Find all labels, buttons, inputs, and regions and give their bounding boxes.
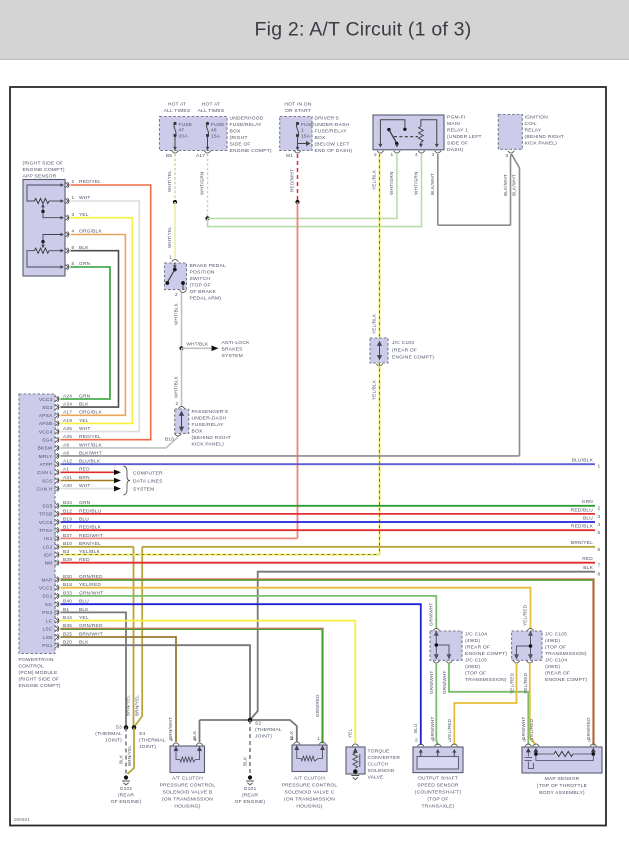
wire ORG/BLK APP pin4 to PCM A17 <box>61 235 126 416</box>
TCC valve connector <box>352 744 358 746</box>
APP sensor box <box>23 180 65 277</box>
svg-text:RED/BLK: RED/BLK <box>571 524 594 530</box>
svg-text:LSB: LSB <box>43 635 53 641</box>
C105 bottom connector left <box>513 661 519 663</box>
svg-text:(4WD): (4WD) <box>545 638 560 644</box>
C105 top connector <box>527 628 533 630</box>
svg-text:TORQUE: TORQUE <box>368 749 391 755</box>
wire GRN PCM B34 to right edge <box>61 505 596 507</box>
wire BLK/WHT relay pin3 down <box>437 154 439 225</box>
PCM pin connector at y=628.8 <box>55 626 59 632</box>
wire YEL APP pin3 to PCM A19 <box>61 218 133 424</box>
svg-text:FUSE: FUSE <box>211 122 225 128</box>
svg-text:ENGINE COMPT): ENGINE COMPT) <box>545 677 587 683</box>
passenger's under-dash fuse/relay box <box>175 409 189 433</box>
ignition coil relay name <box>525 115 565 147</box>
C104 bottom connector left <box>433 661 439 663</box>
wire RED/WHT vertical to B37 <box>297 202 299 538</box>
wire BLK S2 to valve B pin2 horizontal <box>200 719 251 721</box>
svg-text:HOT AT: HOT AT <box>168 102 187 108</box>
svg-text:KICK PANEL): KICK PANEL) <box>192 442 225 448</box>
svg-text:POSITION: POSITION <box>190 270 215 276</box>
svg-text:YEL/RED: YEL/RED <box>523 604 528 626</box>
svg-text:J/C C103: J/C C103 <box>392 340 414 346</box>
svg-text:WHT/GRN: WHT/GRN <box>414 172 419 195</box>
passenger box pin2 connector <box>178 406 184 408</box>
label HOT AT ALL TIMES (fuse 47) <box>164 102 191 115</box>
svg-text:3: 3 <box>432 152 435 158</box>
svg-text:6: 6 <box>598 547 601 553</box>
wire BRN/YEL S4 to ground <box>128 728 135 775</box>
svg-text:WHT/YEL: WHT/YEL <box>167 170 172 192</box>
underhood box name <box>230 116 272 155</box>
relay blade end <box>395 142 398 145</box>
APP sensor pin at y=217.7 <box>65 215 69 221</box>
valve B pin2 connector <box>196 743 202 745</box>
svg-text:COIL: COIL <box>525 121 537 127</box>
svg-text:46: 46 <box>211 128 217 134</box>
svg-text:BLK: BLK <box>583 565 593 571</box>
powertrain control module (PCM) box <box>19 394 55 654</box>
wire BLK/WHT long vertical <box>519 180 521 456</box>
wire BRN/YEL S4 vertical right <box>135 547 143 727</box>
svg-text:(2WD): (2WD) <box>465 664 480 670</box>
svg-text:HOUSING): HOUSING) <box>296 804 322 810</box>
valve B name <box>160 776 216 810</box>
wire YEL PCM B44 to TCC valve <box>61 621 356 743</box>
relay pin 2 connector <box>377 151 383 153</box>
svg-text:(TOP OF: (TOP OF <box>190 283 211 289</box>
TCC valve name <box>368 749 401 781</box>
wire WHT APP pin1 to PCM A25 <box>61 201 140 432</box>
brake switch blade <box>167 270 175 283</box>
svg-text:TRANSMISSION): TRANSMISSION) <box>465 677 507 683</box>
svg-text:M1: M1 <box>286 153 293 159</box>
wire RED/BLK PCM B17 to right edge <box>61 529 596 531</box>
relay top rail left <box>380 120 405 131</box>
svg-text:JOINT): JOINT) <box>255 734 272 740</box>
wire BRN/YEL S4 vertical left <box>133 547 135 728</box>
valve C internal <box>295 746 324 761</box>
svg-text:PG1: PG1 <box>42 643 52 649</box>
svg-text:UNDERHOOD: UNDERHOOD <box>230 116 264 122</box>
svg-text:UNDER-DASH: UNDER-DASH <box>315 122 350 128</box>
output sensor pin2 connector <box>418 744 424 746</box>
svg-text:GRN/WHT: GRN/WHT <box>429 603 434 626</box>
svg-text:3: 3 <box>598 514 601 520</box>
fuse 47 label <box>179 122 193 140</box>
svg-text:BRN/YEL: BRN/YEL <box>126 695 131 716</box>
svg-text:SIDE OF: SIDE OF <box>230 142 251 148</box>
label HOT IN ON OR START <box>284 102 311 115</box>
svg-text:UNDER-DASH: UNDER-DASH <box>192 416 227 422</box>
PCM pin connector at y=546.8 <box>55 544 59 550</box>
fuse 1 label <box>301 122 315 140</box>
svg-text:HOT IN ON: HOT IN ON <box>284 102 311 108</box>
APP sensor location text <box>23 161 65 180</box>
svg-text:DRIVER'S: DRIVER'S <box>315 116 340 122</box>
svg-text:(UNDER LEFT: (UNDER LEFT <box>447 134 482 140</box>
fuse 1 15A symbol <box>296 122 299 137</box>
svg-text:BOX: BOX <box>230 129 242 135</box>
wire RED/YEL APP pin2 to PCM A35 <box>61 185 151 440</box>
svg-text:47: 47 <box>179 128 185 134</box>
relay pin4 arrow <box>419 142 423 148</box>
svg-text:OUTPUT SHAFT: OUTPUT SHAFT <box>418 776 458 782</box>
PCM pin connector at y=464.2 <box>55 461 59 467</box>
connector B5 <box>172 151 178 153</box>
C105 internal <box>515 632 532 659</box>
svg-text:A9: A9 <box>63 442 69 448</box>
PCM pin connector at y=645.2 <box>55 642 59 648</box>
svg-text:RELAY: RELAY <box>525 128 542 134</box>
svg-text:SCS: SCS <box>42 478 53 484</box>
svg-text:SOLENOID: SOLENOID <box>368 768 395 774</box>
svg-text:1: 1 <box>169 255 172 261</box>
wire BLU PCM B40 to output sensor pin2 <box>61 604 421 745</box>
PCM pin connector at y=522 <box>55 519 59 525</box>
wire WHT PCM A30 data line <box>61 488 115 490</box>
junction WHT/GRN <box>205 216 209 220</box>
svg-text:G101: G101 <box>120 786 133 792</box>
wire WHT/GRN to relay pin4 <box>208 154 422 227</box>
svg-text:BLK/WHT: BLK/WHT <box>503 174 508 196</box>
wire YEL/RED C105 to output pin1 <box>454 663 516 745</box>
anti-lock brakes system text <box>222 340 251 359</box>
relay pin1 arrow <box>395 144 399 148</box>
relay coil top rail <box>421 120 437 128</box>
wire YEL/BLK PCM B3 <box>61 554 380 556</box>
svg-text:(2WD): (2WD) <box>545 664 560 670</box>
wire YEL/BLK below C103 <box>379 363 381 555</box>
svg-text:SG4: SG4 <box>42 438 52 444</box>
svg-text:ENGINE COMPT): ENGINE COMPT) <box>465 651 507 657</box>
svg-text:(ON TRANSMISSION: (ON TRANSMISSION <box>284 797 335 803</box>
svg-text:(BELOW LEFT: (BELOW LEFT <box>315 142 350 148</box>
svg-text:PG2: PG2 <box>42 610 52 616</box>
wire BLK valve B pin2 vertical <box>199 720 201 742</box>
svg-text:BOX: BOX <box>192 429 204 435</box>
wire BLK/WHT ignition diagonal <box>512 154 520 180</box>
svg-text:PRESSURE CONTROL: PRESSURE CONTROL <box>160 783 216 789</box>
PCM name <box>19 657 61 689</box>
svg-text:FUSE: FUSE <box>301 122 315 128</box>
G101 rear of engine text (S2) <box>235 786 266 805</box>
svg-text:(REAR OF: (REAR OF <box>545 671 570 677</box>
svg-text:BLU: BLU <box>583 515 593 521</box>
connector M1 <box>294 151 300 153</box>
svg-text:BRN/YEL: BRN/YEL <box>135 695 140 716</box>
svg-text:BRAKE PEDAL: BRAKE PEDAL <box>190 263 226 269</box>
APP pot1 wiper out <box>43 212 61 218</box>
svg-text:(PCM) MODULE: (PCM) MODULE <box>19 670 59 676</box>
thermal joint S4 <box>132 725 137 730</box>
svg-text:(THERMAL: (THERMAL <box>255 727 282 733</box>
fuse 46 label <box>211 122 225 140</box>
svg-text:FUSE/RELAY: FUSE/RELAY <box>315 129 348 135</box>
svg-text:(TOP OF: (TOP OF <box>427 797 448 803</box>
svg-text:SG5: SG5 <box>42 504 52 510</box>
svg-text:RED/WHT: RED/WHT <box>290 169 295 192</box>
relay switch blade <box>389 130 397 144</box>
PCM pin connector at y=595.9 <box>55 593 59 599</box>
relay pin2 arrow <box>378 131 382 148</box>
MAP node left <box>534 752 538 756</box>
svg-text:2: 2 <box>598 506 601 512</box>
svg-text:CAN L: CAN L <box>37 470 52 476</box>
svg-text:2: 2 <box>175 292 178 298</box>
svg-text:VCC3: VCC3 <box>39 397 53 403</box>
C104 internal node <box>435 643 439 647</box>
svg-text:POWERTRAIN: POWERTRAIN <box>19 657 55 663</box>
svg-text:RELAY 1: RELAY 1 <box>447 128 468 134</box>
svg-text:CONVERTER: CONVERTER <box>368 755 401 761</box>
TCC coil <box>353 753 358 768</box>
brake switch contact B <box>165 281 169 285</box>
C104 bottom connector right <box>446 661 452 663</box>
wire BLK to right edge 8 <box>250 572 595 720</box>
junction connector C105 box <box>512 631 542 660</box>
svg-text:DASH): DASH) <box>447 147 463 153</box>
svg-text:2: 2 <box>374 152 377 158</box>
data lines brace <box>124 466 131 495</box>
svg-text:CLUTCH: CLUTCH <box>368 762 389 768</box>
passenger box name <box>192 409 232 448</box>
data line arrow BRN <box>114 478 121 484</box>
svg-text:LC: LC <box>46 618 53 624</box>
svg-text:CONTROL: CONTROL <box>19 664 45 670</box>
svg-text:BLU: BLU <box>413 723 418 733</box>
PCM pin connector at y=399 <box>55 396 59 402</box>
svg-text:15A: 15A <box>301 134 311 140</box>
svg-text:3: 3 <box>506 153 509 159</box>
PGM-FI main relay 1 box <box>373 115 444 150</box>
relay fixed contact <box>403 128 406 131</box>
A/T clutch pressure control solenoid valve C box <box>292 745 327 772</box>
valve B internal <box>174 747 201 762</box>
wire YEL/BLK from relay pin2 <box>379 154 381 338</box>
svg-text:GRN/WHT: GRN/WHT <box>430 717 435 740</box>
wire BLU PCM B19 to right edge <box>61 521 596 523</box>
svg-text:BOX: BOX <box>315 135 327 141</box>
svg-text:TPSB: TPSB <box>39 512 52 518</box>
svg-text:4: 4 <box>415 152 418 158</box>
wire BLK/WHT horizontal joint <box>438 224 511 226</box>
svg-text:B5: B5 <box>166 153 172 159</box>
svg-text:MAIN: MAIN <box>447 121 460 127</box>
svg-text:BKSW: BKSW <box>37 446 52 452</box>
svg-text:1: 1 <box>317 736 320 742</box>
svg-text:NM: NM <box>45 561 53 567</box>
passenger box B16 connector <box>175 434 181 436</box>
svg-text:2: 2 <box>176 401 179 407</box>
thermal joint S2 <box>248 718 253 723</box>
wire YEL/RED PCM B18 to C105 <box>61 588 531 629</box>
junction connector C104 box <box>430 631 462 660</box>
wire RED PCM B39 to right edge <box>61 562 596 564</box>
svg-text:SYSTEM: SYSTEM <box>133 487 154 493</box>
underhood fuse/relay box <box>160 117 228 151</box>
svg-text:GRN: GRN <box>582 499 594 505</box>
MAP pin2 connector <box>590 744 596 746</box>
ignition relay pin 3 connector <box>508 151 514 153</box>
svg-text:YEL/RED: YEL/RED <box>510 672 515 694</box>
wire RED PCM A1 data line <box>61 471 115 473</box>
MAP internal <box>525 748 596 768</box>
brake switch pin2 contact <box>181 281 185 285</box>
svg-text:J/C C105: J/C C105 <box>465 658 487 664</box>
svg-text:VCC1: VCC1 <box>39 586 53 592</box>
output sensor pin3 internal arrow <box>436 749 440 757</box>
MAP internal resistor <box>554 751 573 756</box>
PCM pin connector at y=513.9 <box>55 511 59 517</box>
svg-text:VCC4: VCC4 <box>39 429 53 435</box>
svg-text:YEL/RED: YEL/RED <box>523 672 528 694</box>
svg-text:BLU/BLK: BLU/BLK <box>572 458 594 464</box>
valve B pin1 connector <box>173 743 179 745</box>
svg-text:(REAR OF: (REAR OF <box>392 348 417 354</box>
PCM pin connector at y=505.8 <box>55 503 59 509</box>
svg-text:BRN/YEL: BRN/YEL <box>571 540 593 546</box>
svg-text:APSA: APSA <box>39 413 53 419</box>
svg-text:FUSE/RELAY: FUSE/RELAY <box>230 122 263 128</box>
svg-text:YEL/BLK: YEL/BLK <box>372 379 377 400</box>
svg-text:4: 4 <box>598 522 601 528</box>
PCM pin connector at y=472.3 <box>55 469 59 475</box>
wire RED/BLU PCM B12 to right edge <box>61 513 596 515</box>
APP pot1 wiper arrow <box>41 204 45 211</box>
svg-text:A/T CLUTCH: A/T CLUTCH <box>172 776 203 782</box>
brake switch pin1 connector <box>172 259 178 261</box>
label HOT AT ALL TIMES (fuse 46) <box>198 102 225 115</box>
relay pin 3 connector <box>435 151 441 153</box>
svg-text:(REAR OF: (REAR OF <box>465 645 490 651</box>
TCC ground node <box>353 769 357 773</box>
fuse 47 lead with arrow <box>173 136 177 151</box>
svg-text:(THERMAL: (THERMAL <box>95 731 122 737</box>
wire GRN/WHT C104 to output pin3 <box>436 663 438 745</box>
wire BRN/YEL PCM B10 segment <box>61 546 134 548</box>
relay pin3 arrow <box>435 128 439 148</box>
svg-text:CAN H: CAN H <box>36 486 52 492</box>
APP sensor pin at y=250.7 <box>65 248 69 254</box>
svg-text:ENGINE COMPT): ENGINE COMPT) <box>230 148 272 154</box>
junction connector C103 box <box>370 338 388 363</box>
APP pot2 left loop <box>27 251 61 267</box>
svg-text:S2: S2 <box>255 721 261 727</box>
wire GRN/WHT PCM B33 to C104 <box>61 596 437 629</box>
svg-text:MAP: MAP <box>41 577 52 583</box>
wire BRN PCM A31 data line <box>61 480 115 482</box>
APP pot1 right lead <box>49 199 64 203</box>
wire BLK S2 to valve C pin2 <box>250 720 297 742</box>
svg-text:(REAR: (REAR <box>118 793 135 799</box>
svg-text:ALL TIMES: ALL TIMES <box>198 108 225 114</box>
svg-text:A17: A17 <box>196 153 205 159</box>
C105 internal node <box>529 644 533 648</box>
svg-text:Fig 2: A/T Circuit (1 of 3): Fig 2: A/T Circuit (1 of 3) <box>255 19 472 41</box>
C103 name <box>392 340 434 361</box>
svg-text:(REAR: (REAR <box>242 793 259 799</box>
svg-text:VCC5: VCC5 <box>39 520 53 526</box>
data line arrow RED <box>114 470 121 476</box>
svg-text:PGM-FI: PGM-FI <box>447 115 465 121</box>
svg-text:PASSENGER'S: PASSENGER'S <box>192 409 229 415</box>
svg-text:MAP SENSOR: MAP SENSOR <box>545 776 580 782</box>
APP pot2 resistor <box>35 248 50 253</box>
C104 internal <box>435 632 451 659</box>
driver's box name <box>315 116 353 155</box>
svg-text:BRAKES: BRAKES <box>222 347 244 353</box>
arrow to anti-lock brakes <box>212 346 219 352</box>
svg-text:HOT AT: HOT AT <box>202 102 221 108</box>
valve C pin1 connector <box>319 742 325 744</box>
svg-text:RED: RED <box>582 556 593 562</box>
wire BLK PCM B20 to S2 <box>61 645 251 720</box>
wire BLK/WHT ignition pin3 down <box>510 154 513 225</box>
svg-text:(COUNTERSHAFT): (COUNTERSHAFT) <box>415 790 462 796</box>
C103 internal arrow <box>378 342 382 359</box>
svg-text:YEL/BLK: YEL/BLK <box>372 313 377 334</box>
wire WHT/BLK A9 link <box>61 437 179 448</box>
ignition coil relay box <box>498 115 522 150</box>
svg-text:IGP: IGP <box>44 552 53 558</box>
wire GRN/WHT C104 to MAP pin3 <box>449 663 528 745</box>
svg-text:2: 2 <box>194 737 197 743</box>
wire BLK/WHT PCM A6 row <box>61 455 520 457</box>
svg-text:SOLENOID VALVE C: SOLENOID VALVE C <box>284 790 334 796</box>
A/T clutch pressure control solenoid valve B box <box>170 746 205 773</box>
svg-text:VALVE: VALVE <box>368 775 385 781</box>
G101 rear of engine text (S3) <box>111 786 142 805</box>
svg-text:290601: 290601 <box>14 817 31 822</box>
svg-text:A/T CLUTCH: A/T CLUTCH <box>294 776 325 782</box>
C103 bottom connector <box>376 364 382 366</box>
svg-text:MRLY: MRLY <box>39 454 53 460</box>
svg-text:OF ENGINE): OF ENGINE) <box>111 799 142 805</box>
torque converter clutch solenoid valve box <box>346 747 365 774</box>
wire BRN/YEL right segment to edge <box>142 546 595 548</box>
TCC ground symbol <box>351 776 359 780</box>
svg-text:ATPP: ATPP <box>39 462 52 468</box>
S3 thermal joint text <box>95 725 122 744</box>
wire BLK PCM B1 to S3 <box>61 612 127 727</box>
PCM pin connector at y=407.1 <box>55 404 59 410</box>
svg-text:1: 1 <box>391 152 394 158</box>
APP sensor pin at y=201 <box>65 198 69 204</box>
svg-text:SWITCH: SWITCH <box>190 276 211 282</box>
svg-text:END OF DASH): END OF DASH) <box>315 148 353 154</box>
svg-text:WHT/BLK: WHT/BLK <box>174 302 179 325</box>
wire WHT/GRN to relay pin1 <box>208 154 397 218</box>
APP pot2 wiper arrow <box>41 242 45 249</box>
svg-text:SPEED SENSOR: SPEED SENSOR <box>417 783 458 789</box>
fuse 47 20A symbol <box>173 122 176 137</box>
C105 bottom connector right <box>527 661 533 663</box>
output sensor inner box <box>417 757 459 770</box>
svg-text:WHT/GRN: WHT/GRN <box>389 172 394 195</box>
PCM pin connector at y=423.4 <box>55 420 59 426</box>
PCM pin connector at y=439.7 <box>55 437 59 443</box>
ground G101 (S3) <box>122 775 130 785</box>
svg-text:(4WD): (4WD) <box>465 638 480 644</box>
brake switch pin2 connector <box>180 290 186 292</box>
svg-text:PRESSURE CONTROL: PRESSURE CONTROL <box>282 783 338 789</box>
brake switch pin1 arrow <box>173 263 177 269</box>
wire WHT/YEL dashed from B5 <box>174 154 176 202</box>
PGM-FI relay name <box>447 115 482 154</box>
svg-text:YEL: YEL <box>348 728 353 738</box>
